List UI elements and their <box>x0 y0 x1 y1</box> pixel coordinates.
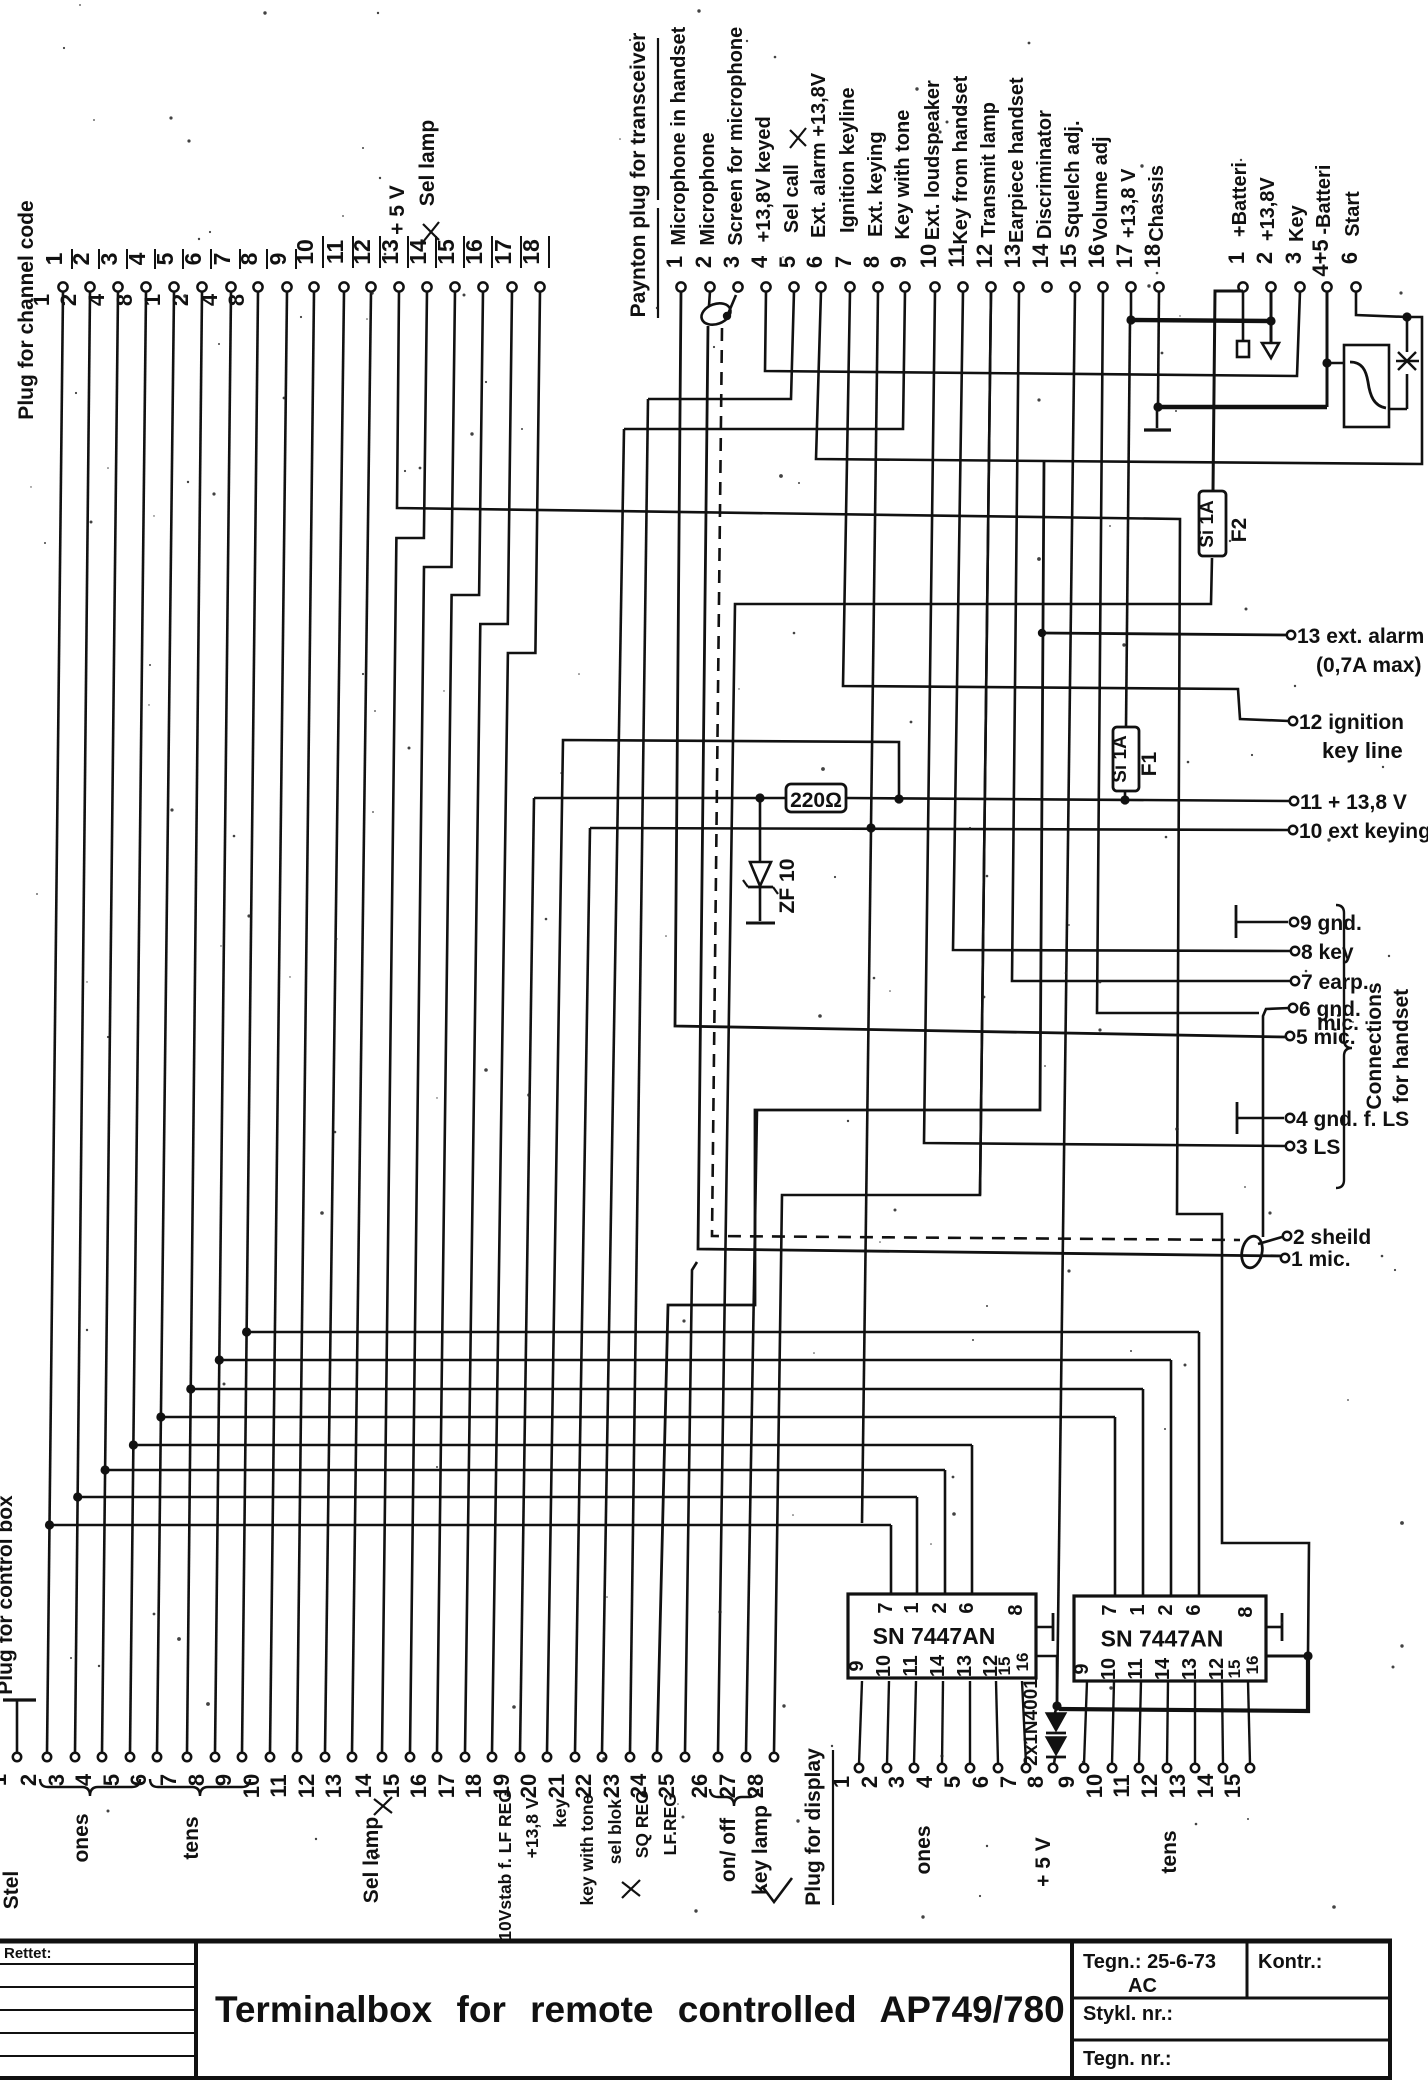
wire control 19 riser to 220ohm line <box>520 798 534 1753</box>
wire IC U2 output to display pin 10 <box>1112 1681 1114 1764</box>
display plug pin 1 <box>829 1764 863 1788</box>
svg-text:Key from handset: Key from handset <box>950 75 972 244</box>
wire paynton 2 solid microphone line to handset 1 mic <box>709 291 710 306</box>
wire channel pin 16 staircase to control pin 16 <box>437 291 483 1753</box>
svg-text:18: 18 <box>1140 244 1165 268</box>
svg-text:8 key: 8 key <box>1301 941 1354 964</box>
svg-text:16: 16 <box>1013 1653 1032 1672</box>
svg-text:14: 14 <box>1028 243 1053 268</box>
svg-text:Start: Start <box>1342 191 1364 237</box>
svg-text:7: 7 <box>875 1602 897 1613</box>
display plug pin 11 <box>1109 1764 1143 1798</box>
handset terminal 2 sheild <box>1283 1226 1371 1249</box>
control plug pin 21 <box>544 1753 579 1798</box>
control plug pin 26 <box>687 1753 722 1798</box>
svg-text:26: 26 <box>687 1774 712 1798</box>
paynton pin 18 (Chassis) <box>1140 165 1168 292</box>
handset terminal 7 earp. <box>1291 971 1369 994</box>
wire paynton 5 (sel call) left to control 23 column <box>648 291 794 399</box>
battery plug pin 1 (+Batteri) <box>1224 162 1251 292</box>
svg-text:3: 3 <box>884 1776 909 1788</box>
svg-text:tens: tens <box>1158 1830 1181 1873</box>
svg-text:4: 4 <box>124 252 150 265</box>
svg-text:14: 14 <box>927 1654 949 1677</box>
channel plug pin 8 <box>224 249 267 306</box>
display plug pin 7 <box>996 1764 1030 1788</box>
svg-text:ZF 10: ZF 10 <box>776 859 799 914</box>
svg-text:5: 5 <box>99 1774 124 1786</box>
zener diode ZF10 <box>759 798 762 862</box>
svg-text:Chassis: Chassis <box>1146 165 1168 242</box>
paynton pin 10 (Ext. loudspeaker) <box>916 80 944 292</box>
channel plug pin 15 <box>433 236 464 292</box>
junction node control pin 5 <box>129 1440 138 1449</box>
wire control 3 data line to decoder input <box>75 1496 917 1499</box>
svg-text:Plug for control box: Plug for control box <box>0 1495 17 1695</box>
wire channel pin 4 to control pin 5 <box>130 292 146 1753</box>
control plug pin 4 <box>71 1753 106 1786</box>
wire ext keying line <box>590 828 1289 830</box>
svg-text:Rettet:: Rettet: <box>4 1945 52 1962</box>
wire paynton 6 (ext alarm) to alarm/start rail <box>816 291 1046 461</box>
control plug pin 24 <box>626 1753 661 1798</box>
paynton pin 17 (+13,8 V) <box>1112 168 1140 292</box>
wire channel pin 9 to control pin 10 <box>270 292 287 1753</box>
thick -Batteri line to chassis <box>1326 292 1329 407</box>
wire +5V rail to diode node <box>1059 1658 1308 1711</box>
wire channel pin 3 to control pin 4 <box>102 292 118 1753</box>
control plug pin 20 <box>516 1753 551 1798</box>
handset terminal 10 ext keying <box>1289 820 1428 843</box>
wire control 4 data line to decoder input <box>103 1469 945 1472</box>
svg-text:SN 7447AN: SN 7447AN <box>873 1623 996 1649</box>
wire control 25 riser to mic line <box>685 1262 697 1753</box>
wire IC U2 output to display pin 13 <box>1194 1681 1196 1764</box>
svg-text:21: 21 <box>544 1774 569 1798</box>
wire channel pin 14 staircase to control pin 14 <box>382 291 427 1753</box>
IC U1 SN7447AN (ones decoder) <box>846 1594 1036 1678</box>
wire control 22 riser to Paynton 9 <box>602 429 624 1753</box>
wire +Batteri hook to fuse F2 <box>1213 291 1243 491</box>
display plug pin 4 <box>912 1764 946 1788</box>
svg-text:2: 2 <box>691 256 716 268</box>
control plug pin 22 <box>571 1753 606 1798</box>
svg-text:15: 15 <box>995 1657 1014 1676</box>
svg-text:7: 7 <box>156 1774 181 1786</box>
paynton pin 1 (Microphone in handset) <box>662 26 690 291</box>
svg-text:+ 5 V: + 5 V <box>1032 1837 1055 1887</box>
svg-text:8: 8 <box>1005 1604 1027 1615</box>
wire paynton 8 (ext keying) down to control 2 line <box>871 291 878 826</box>
svg-text:SN 7447AN: SN 7447AN <box>1101 1626 1224 1652</box>
svg-text:9: 9 <box>886 256 911 268</box>
channel plug pin 6 <box>168 249 211 306</box>
control plug pin 17 <box>434 1753 469 1798</box>
svg-text:13: 13 <box>1165 1774 1190 1798</box>
svg-text:9: 9 <box>211 1774 236 1786</box>
svg-text:8: 8 <box>224 294 249 306</box>
svg-text:sel blok: sel blok <box>605 1799 625 1864</box>
junction node control pin 9 <box>242 1327 251 1336</box>
svg-text:10: 10 <box>1098 1658 1120 1680</box>
wire start pin to right rail <box>1356 292 1407 317</box>
wire IC U1 output to display pin 1 <box>859 1681 862 1764</box>
wire +Batteri pin to connector symbol <box>1242 292 1245 341</box>
svg-text:13: 13 <box>954 1655 976 1677</box>
svg-text:10: 10 <box>292 239 318 265</box>
svg-text:Plug for display: Plug for display <box>802 1748 825 1906</box>
svg-text:2: 2 <box>1155 1604 1177 1615</box>
svg-text:Ignition keyline: Ignition keyline <box>837 87 859 233</box>
wire control 9 data line to decoder input <box>245 1331 1199 1334</box>
svg-text:5: 5 <box>775 256 800 268</box>
paynton pin 12 (Transmit lamp) <box>972 102 1000 292</box>
svg-text:1: 1 <box>1127 1604 1149 1615</box>
svg-text:12: 12 <box>972 244 997 268</box>
svg-text:13: 13 <box>377 239 403 265</box>
channel plug pin 2 <box>56 249 99 306</box>
svg-text:15: 15 <box>433 239 459 265</box>
wire paynton 3 screen slant <box>728 295 736 314</box>
svg-text:10: 10 <box>916 244 941 268</box>
channel plug pin 4 <box>112 249 155 306</box>
paynton pin 4 (+13,8V keyed) <box>747 116 775 291</box>
svg-text:1: 1 <box>662 256 687 268</box>
svg-text:14: 14 <box>1152 1657 1174 1680</box>
wire channel pin 2 to control pin 3 <box>75 292 90 1753</box>
svg-text:Screen for microphone: Screen for microphone <box>725 27 747 246</box>
svg-text:key lamp: key lamp <box>749 1805 772 1895</box>
wire channel pin 11 to control pin 12 <box>325 292 344 1753</box>
svg-text:8: 8 <box>236 252 262 265</box>
svg-text:4+5: 4+5 <box>1308 239 1333 276</box>
svg-text:Volume adj: Volume adj <box>1090 136 1112 241</box>
svg-text:7: 7 <box>1099 1604 1121 1615</box>
svg-text:+Batteri: +Batteri <box>1229 162 1251 237</box>
svg-text:Sel lamp: Sel lamp <box>416 120 439 206</box>
ground tick at 4 gnd f LS <box>1236 1102 1239 1134</box>
svg-text:key with tone: key with tone <box>577 1794 597 1905</box>
IC U2 SN7447AN (tens decoder) <box>1071 1596 1266 1681</box>
svg-text:10: 10 <box>1082 1774 1107 1798</box>
display plug pin 8 <box>1023 1764 1057 1788</box>
svg-text:9: 9 <box>1071 1663 1093 1674</box>
svg-text:4 gnd. f. LS: 4 gnd. f. LS <box>1296 1108 1409 1131</box>
svg-text:13: 13 <box>321 1774 346 1798</box>
svg-text:1: 1 <box>901 1602 923 1613</box>
handset terminal 3 LS <box>1286 1136 1341 1159</box>
ground chassis at battery minus <box>1156 409 1159 428</box>
paynton pin 11 (Key from handset) <box>944 75 972 291</box>
svg-text:3: 3 <box>44 1774 69 1786</box>
wire IC U2 output to display pin 15 <box>1248 1681 1250 1764</box>
svg-text:Key: Key <box>1286 204 1308 242</box>
channel plug pin 10 <box>292 236 323 292</box>
wire IC U1 output to display pin 4 <box>942 1681 943 1764</box>
display plug pin 15 <box>1220 1764 1254 1798</box>
brace ones (control 2-5) <box>40 1779 140 1796</box>
control plug pin 12 <box>294 1753 329 1798</box>
channel plug pin 16 <box>461 236 492 292</box>
display plug pin 6 <box>968 1764 1002 1788</box>
svg-text:16: 16 <box>461 239 487 265</box>
svg-text:6: 6 <box>802 256 827 268</box>
wire control 24 riser to discriminator/ext-alarm column <box>657 461 1044 1753</box>
svg-text:23: 23 <box>599 1774 624 1798</box>
control plug pin 14 <box>351 1753 386 1798</box>
wire paynton 16 (volume adj) to 6 gnd mic <box>1097 291 1259 1013</box>
svg-text:1: 1 <box>29 294 54 306</box>
shield ellipse at handset mic pair <box>1239 1234 1265 1269</box>
svg-text:Ext. alarm +13,8V: Ext. alarm +13,8V <box>808 72 830 238</box>
diodes 2x1N4001 <box>1055 1709 1056 1713</box>
svg-text:11: 11 <box>266 1774 291 1797</box>
wire paynton 18 (chassis) to ground <box>1158 291 1159 405</box>
channel plug pin 13 <box>377 185 409 291</box>
svg-text:16: 16 <box>1084 244 1109 268</box>
wire paynton 4 (+13,8V keyed) to battery plug pin 3 <box>765 291 1300 376</box>
junction node control pin 2 <box>45 1520 54 1529</box>
svg-text:2: 2 <box>929 1602 951 1613</box>
wire paynton 11 (key from handset) to 8 key <box>953 291 1291 951</box>
wire channel pin 12 to control pin 13 <box>352 292 371 1753</box>
paynton pin 5 (Sel call) <box>775 128 806 292</box>
handset terminal 5 mic. <box>1286 1026 1356 1049</box>
ground tick IC U1 pin 8 <box>1036 1626 1053 1629</box>
wire channel pin 18 staircase to control pin 18 <box>492 291 540 1753</box>
control plug pin 11 <box>266 1753 301 1798</box>
wire switch to start column <box>1389 408 1407 411</box>
svg-text:-Batteri: -Batteri <box>1313 165 1335 235</box>
svg-text:7: 7 <box>209 253 235 266</box>
svg-text:7 earp.: 7 earp. <box>1301 971 1369 994</box>
display plug pin 10 <box>1082 1764 1116 1798</box>
svg-text:14: 14 <box>351 1773 376 1798</box>
control plug pin 5 <box>99 1753 134 1786</box>
wire paynton 12 (transmit lamp) <box>980 291 991 1195</box>
channel plug pin 3 <box>84 249 127 306</box>
svg-text:5: 5 <box>152 252 178 265</box>
junction node control pin 4 <box>101 1465 110 1474</box>
svg-text:12: 12 <box>1137 1774 1162 1798</box>
handset terminal 13 ext. alarm <box>1287 625 1424 648</box>
svg-text:+13,8 V: +13,8 V <box>1118 168 1140 238</box>
svg-text:Key with tone: Key with tone <box>892 110 914 240</box>
svg-text:for handset: for handset <box>1390 989 1413 1103</box>
wire IC U1 output to display pin 6 <box>996 1681 998 1764</box>
svg-text:2 sheild: 2 sheild <box>1293 1226 1371 1249</box>
wire IC U1 output to display pin 7 <box>1022 1681 1026 1764</box>
svg-text:SQ REG: SQ REG <box>632 1790 652 1858</box>
svg-text:14: 14 <box>405 239 431 265</box>
control plug pin 18 <box>461 1753 496 1798</box>
fuse F2 <box>1197 491 1226 556</box>
channel plug pin 14 <box>405 120 439 292</box>
svg-text:+13,8 V: +13,8 V <box>522 1797 542 1858</box>
lamp symbol on start line <box>1398 352 1416 370</box>
wire branch to 13 ext alarm <box>1042 633 1287 635</box>
svg-text:Microphone in handset: Microphone in handset <box>668 26 690 245</box>
wire paynton 17 (+13,8V) through fuse F1 <box>1130 291 1133 319</box>
handset terminal 4 gnd. f. LS <box>1286 1108 1409 1131</box>
wire channel pin 10 to control pin 11 <box>297 292 314 1753</box>
svg-text:8: 8 <box>859 256 884 268</box>
svg-text:18: 18 <box>518 239 544 265</box>
svg-text:10Vstab f. LF REG: 10Vstab f. LF REG <box>495 1789 515 1941</box>
connector symbol pin 2 (triangle) <box>1262 343 1279 358</box>
paynton pin 15 (Squelch adj.) <box>1056 120 1084 291</box>
svg-text:3 LS: 3 LS <box>1296 1136 1340 1159</box>
svg-text:12: 12 <box>294 1774 319 1798</box>
wire IC U2 pin16 to +5V riser <box>1266 1655 1306 1658</box>
svg-text:220Ω: 220Ω <box>790 789 842 812</box>
wire IC U2 output to display pin 11 <box>1139 1681 1141 1764</box>
wire control 8 data line to decoder input <box>218 1359 1171 1362</box>
svg-text:7: 7 <box>831 256 856 268</box>
wire 6 gnd mic pin to shield ellipse <box>1263 1008 1289 1237</box>
display plug pin 5 <box>940 1764 974 1788</box>
channel plug pin 17 <box>490 236 521 292</box>
svg-text:16: 16 <box>406 1774 431 1798</box>
connector symbol pin 1 <box>1237 341 1249 357</box>
control plug pin 23 <box>599 1753 634 1798</box>
svg-text:Earpiece handset: Earpiece handset <box>1006 77 1028 243</box>
control plug pin 10 <box>239 1753 274 1798</box>
display plug pin 9 <box>1054 1764 1088 1788</box>
wire control 27 riser <box>746 1110 757 1753</box>
svg-text:2: 2 <box>1252 252 1277 264</box>
svg-text:4: 4 <box>912 1775 937 1788</box>
control plug pin 15 <box>379 1753 414 1798</box>
wire alarm rail to start switch loop <box>1046 317 1422 464</box>
svg-text:6: 6 <box>968 1776 993 1788</box>
svg-text:12 ignition: 12 ignition <box>1299 711 1404 734</box>
handset terminal 11 + 13,8 V <box>1290 791 1407 814</box>
svg-text:13: 13 <box>1179 1658 1201 1680</box>
paynton pin 6 (Ext. alarm +13,8V) <box>802 72 830 291</box>
battery plug pin 2 (+13,8V) <box>1252 177 1279 292</box>
control pin 1 with chassis bar <box>16 1701 19 1753</box>
channel plug pin 5 <box>140 249 183 306</box>
svg-text:17: 17 <box>1112 244 1137 268</box>
info box rows <box>1072 1997 1390 2000</box>
svg-text:4: 4 <box>747 255 772 268</box>
svg-text:Microphone: Microphone <box>697 132 719 245</box>
display plug pin 12 <box>1137 1764 1171 1798</box>
wire control 23 riser to Paynton 5 <box>630 399 648 1753</box>
wire +13,8V distribution line <box>534 797 786 800</box>
svg-text:ones: ones <box>70 1813 93 1862</box>
control plug pin 9 <box>211 1753 246 1786</box>
svg-text:13: 13 <box>1000 244 1025 268</box>
brace on/off (control 26-27) <box>710 1789 758 1806</box>
svg-text:4: 4 <box>84 293 109 306</box>
svg-text:3: 3 <box>96 253 122 266</box>
svg-text:6: 6 <box>1183 1604 1205 1615</box>
svg-text:8: 8 <box>1235 1606 1257 1617</box>
svg-text:key line: key line <box>1322 738 1403 763</box>
svg-text:Connections: Connections <box>1363 982 1386 1109</box>
svg-text:Tegn.: 25-6-73: Tegn.: 25-6-73 <box>1083 1951 1216 1973</box>
svg-text:on/ off: on/ off <box>717 1817 740 1882</box>
svg-text:Plug for channel code: Plug for channel code <box>15 200 38 419</box>
svg-text:AC: AC <box>1128 1975 1157 1997</box>
svg-text:14: 14 <box>1193 1773 1218 1798</box>
control plug pin 13 <box>321 1753 356 1798</box>
control plug pin 25 <box>654 1753 689 1798</box>
svg-text:2x1N4001: 2x1N4001 <box>1021 1678 1042 1766</box>
svg-text:Ext. keying: Ext. keying <box>865 131 887 237</box>
wire IC U2 output to display pin 9 <box>1084 1681 1087 1764</box>
svg-text:7: 7 <box>996 1776 1021 1788</box>
wire -Batteri node to switch box <box>1327 362 1344 365</box>
svg-text:9: 9 <box>265 253 291 266</box>
control plug pin 19 <box>489 1753 524 1798</box>
wire paynton 13 (earpiece) to 7 earp <box>1012 291 1291 981</box>
paynton pin 16 (Volume adj) <box>1084 136 1112 291</box>
wire IC U1 pin16 to +5V node <box>1036 1656 1057 1703</box>
svg-text:Squelch adj.: Squelch adj. <box>1062 120 1084 238</box>
wire IC U1 output to display pin 5 <box>969 1681 971 1764</box>
wire control 6 data line to decoder input <box>160 1416 1115 1419</box>
paynton pin 14 (Discriminator) <box>1028 110 1056 292</box>
svg-text:11 + 13,8 V: 11 + 13,8 V <box>1300 791 1407 814</box>
wire IC U2 output to display pin 12 <box>1167 1681 1168 1764</box>
svg-text:8: 8 <box>1023 1776 1048 1788</box>
paynton pin 2 (Microphone) <box>691 132 719 291</box>
svg-text:Discriminator: Discriminator <box>1034 110 1056 239</box>
wire channel pin 17 staircase to control pin 17 <box>465 291 512 1753</box>
channel plug pin 9 <box>265 249 296 292</box>
svg-text:2: 2 <box>56 294 81 306</box>
svg-text:6: 6 <box>956 1602 978 1613</box>
paynton pin 3 (Screen for microphone) <box>719 27 747 292</box>
svg-text:Terminalbox for remote control: Terminalbox for remote controlled AP749/… <box>215 1989 1065 2030</box>
svg-text:9: 9 <box>846 1660 868 1671</box>
svg-text:15: 15 <box>379 1774 404 1798</box>
ground tick IC U2 pin 8 <box>1266 1626 1282 1629</box>
svg-text:11: 11 <box>1109 1774 1134 1797</box>
wire control 7 data line to decoder input <box>188 1388 1143 1391</box>
brace connections for handset <box>1336 905 1352 1188</box>
paynton pin 8 (Ext. keying) <box>859 131 887 291</box>
ground below ZF10 <box>746 922 775 925</box>
wire control 26 riser to fuse F2 output <box>718 558 1212 1753</box>
channel plug pin 11 <box>322 236 353 292</box>
control plug pin 28 <box>743 1753 778 1798</box>
svg-text:11: 11 <box>1125 1658 1147 1679</box>
paynton pin 13 (Earpiece handset) <box>1000 77 1028 292</box>
svg-text:3: 3 <box>1281 252 1306 264</box>
svg-text:Sel lamp: Sel lamp <box>360 1817 383 1903</box>
svg-text:Stel: Stel <box>0 1871 23 1910</box>
svg-text:5: 5 <box>940 1776 965 1788</box>
display plug pin 13 <box>1165 1764 1199 1798</box>
svg-text:15: 15 <box>1056 244 1081 268</box>
thick +13,8V tie line <box>1131 320 1271 321</box>
wire IC U2 output to display pin 14 <box>1222 1681 1223 1764</box>
svg-text:+ 5 V: + 5 V <box>386 185 409 235</box>
ground tick at 9 gnd <box>1235 905 1238 938</box>
brace tens (control 6-9) <box>150 1779 250 1796</box>
svg-text:11: 11 <box>900 1655 922 1676</box>
svg-text:Stykl. nr.:: Stykl. nr.: <box>1083 2003 1173 2025</box>
svg-text:1: 1 <box>0 1774 11 1786</box>
wire paynton 7 (ignition keyline) to 12 ignition <box>843 291 1289 721</box>
control plug pin 6 <box>126 1753 161 1786</box>
control plug pin 1 <box>0 1753 21 1786</box>
junction node control pin 8 <box>215 1355 224 1364</box>
